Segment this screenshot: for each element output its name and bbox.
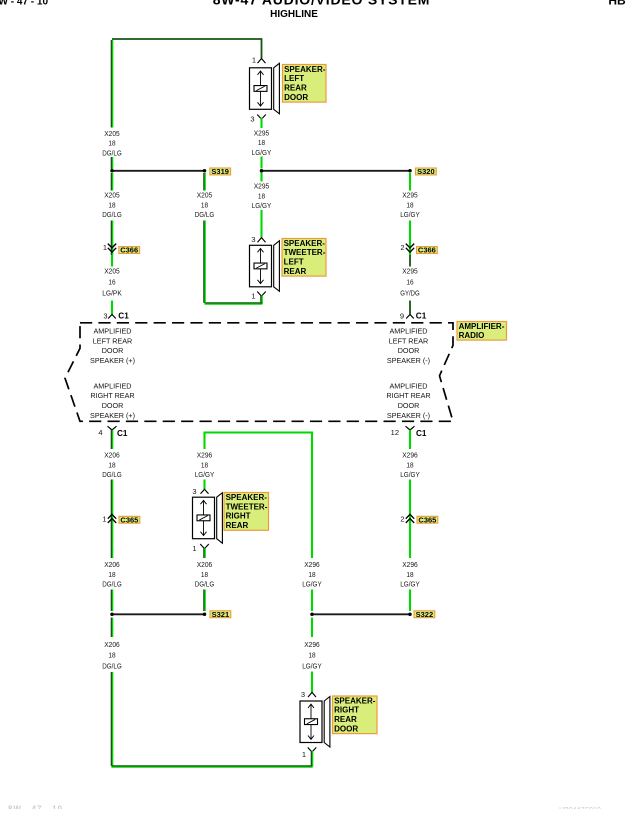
svg-text:8W-47 AUDIO/VIDEO SYSTEM: 8W-47 AUDIO/VIDEO SYSTEM [213,0,431,8]
svg-text:18: 18 [108,200,115,209]
svg-text:X205: X205 [104,267,120,276]
svg-text:4: 4 [98,428,102,437]
svg-text:DG/LG: DG/LG [195,580,215,589]
svg-text:AMPLIFIER-: AMPLIFIER- [459,322,505,331]
svg-text:LG/GY: LG/GY [400,580,420,589]
svg-text:DOOR: DOOR [398,346,420,355]
svg-text:TWEETER-: TWEETER- [284,248,326,257]
svg-text:C366: C366 [120,246,138,255]
svg-text:X205: X205 [104,129,120,138]
svg-text:LG/GY: LG/GY [252,148,272,157]
svg-text:X206: X206 [104,451,120,460]
svg-text:C1: C1 [117,429,128,438]
svg-text:C1: C1 [416,429,427,438]
svg-text:X206: X206 [197,560,213,569]
svg-text:GY/DG: GY/DG [400,288,420,297]
svg-text:LG/GY: LG/GY [252,201,272,210]
svg-text:X206: X206 [104,640,120,649]
svg-text:DOOR: DOOR [102,401,124,410]
svg-text:18: 18 [201,570,208,579]
svg-text:X206: X206 [104,560,120,569]
svg-text:1: 1 [192,544,196,553]
svg-text:X295: X295 [402,191,418,200]
svg-text:C365: C365 [418,515,436,524]
svg-text:X295: X295 [254,129,270,138]
svg-text:AMPLIFIED: AMPLIFIED [390,326,428,335]
svg-text:3: 3 [251,235,255,244]
svg-text:3: 3 [250,114,254,123]
svg-text:RIGHT REAR: RIGHT REAR [90,391,134,400]
svg-text:X295: X295 [402,267,418,276]
svg-text:3: 3 [192,487,196,496]
svg-text:1: 1 [252,56,256,65]
svg-text:18: 18 [108,570,115,579]
svg-text:LG/GY: LG/GY [400,470,420,479]
svg-text:DG/LG: DG/LG [102,148,122,157]
svg-text:3: 3 [103,312,107,321]
svg-text:1: 1 [103,243,107,252]
svg-text:REAR: REAR [334,715,357,724]
svg-text:LEFT: LEFT [284,258,304,267]
svg-text:2: 2 [400,243,404,252]
svg-text:REAR: REAR [284,84,307,93]
svg-text:RIGHT: RIGHT [334,706,359,715]
svg-text:18: 18 [308,570,315,579]
svg-text:HB: HB [608,0,626,8]
svg-text:1: 1 [102,515,106,524]
svg-text:SPEAKER (+): SPEAKER (+) [90,411,135,420]
svg-text:AMPLIFIED: AMPLIFIED [390,381,428,390]
svg-text:X205: X205 [104,191,120,200]
svg-text:X296: X296 [402,560,418,569]
svg-text:3: 3 [301,690,305,699]
svg-text:S320: S320 [417,167,435,176]
svg-text:2: 2 [400,515,404,524]
svg-text:SPEAKER (-): SPEAKER (-) [387,356,430,365]
svg-text:RIGHT REAR: RIGHT REAR [386,391,430,400]
svg-text:LG/PK: LG/PK [102,288,122,297]
svg-text:8W - 47 - 10: 8W - 47 - 10 [0,0,48,8]
svg-text:DG/LG: DG/LG [102,661,122,670]
svg-text:18: 18 [108,139,115,148]
svg-text:8W - 47 - 10: 8W - 47 - 10 [8,805,63,810]
svg-text:LEFT REAR: LEFT REAR [93,336,132,345]
svg-text:HIGHLINE: HIGHLINE [270,9,318,20]
svg-text:LEFT REAR: LEFT REAR [389,336,428,345]
svg-text:SPEAKER-: SPEAKER- [334,696,376,705]
svg-text:16: 16 [108,278,115,287]
svg-text:C1: C1 [416,312,427,321]
svg-text:SPEAKER (-): SPEAKER (-) [387,411,430,420]
svg-text:18: 18 [201,200,208,209]
svg-text:X295: X295 [254,182,270,191]
svg-text:12: 12 [391,428,399,437]
svg-text:DOOR: DOOR [334,725,358,734]
svg-text:LEFT: LEFT [284,74,304,83]
svg-text:X296: X296 [304,640,320,649]
svg-text:RADIO: RADIO [459,331,485,340]
svg-text:DG/LG: DG/LG [102,470,122,479]
svg-text:18: 18 [308,651,315,660]
svg-text:C365: C365 [120,515,138,524]
svg-text:1: 1 [302,750,306,759]
svg-text:S319: S319 [211,167,229,176]
svg-text:18: 18 [108,651,115,660]
svg-text:C1: C1 [118,312,129,321]
svg-text:AMPLIFIED: AMPLIFIED [94,381,132,390]
svg-text:S321: S321 [212,610,230,619]
svg-text:REAR: REAR [284,267,307,276]
svg-text:LG/GY: LG/GY [302,661,322,670]
svg-text:1: 1 [251,292,255,301]
svg-text:LG/GY: LG/GY [400,210,420,219]
svg-text:DOOR: DOOR [102,346,124,355]
svg-text:18: 18 [406,460,413,469]
svg-text:16: 16 [406,278,413,287]
svg-text:SPEAKER (+): SPEAKER (+) [90,356,135,365]
svg-text:18: 18 [258,191,265,200]
svg-text:RIGHT: RIGHT [226,512,251,521]
svg-text:18: 18 [406,570,413,579]
svg-text:18: 18 [108,460,115,469]
svg-text:X296: X296 [402,451,418,460]
svg-text:X205: X205 [197,191,213,200]
svg-text:DG/LG: DG/LG [195,210,215,219]
svg-text:LG/GY: LG/GY [302,580,322,589]
svg-text:DG/LG: DG/LG [102,580,122,589]
svg-text:SPEAKER-: SPEAKER- [226,493,268,502]
svg-text:X296: X296 [304,560,320,569]
svg-text:DG/LG: DG/LG [102,210,122,219]
svg-text:S322: S322 [416,610,434,619]
svg-text:REAR: REAR [226,521,249,530]
svg-text:SPEAKER-: SPEAKER- [284,65,326,74]
svg-text:18: 18 [406,200,413,209]
svg-text:AMPLIFIED: AMPLIFIED [94,326,132,335]
svg-text:18: 18 [201,460,208,469]
svg-text:18: 18 [258,138,265,147]
svg-text:X296: X296 [197,451,213,460]
svg-text:9: 9 [400,312,404,321]
svg-text:SPEAKER-: SPEAKER- [284,239,326,248]
svg-text:LG/GY: LG/GY [195,470,215,479]
svg-text:DOOR: DOOR [284,93,308,102]
svg-text:C366: C366 [418,246,436,255]
svg-text:DOOR: DOOR [398,401,420,410]
svg-text:TWEETER-: TWEETER- [226,502,268,511]
